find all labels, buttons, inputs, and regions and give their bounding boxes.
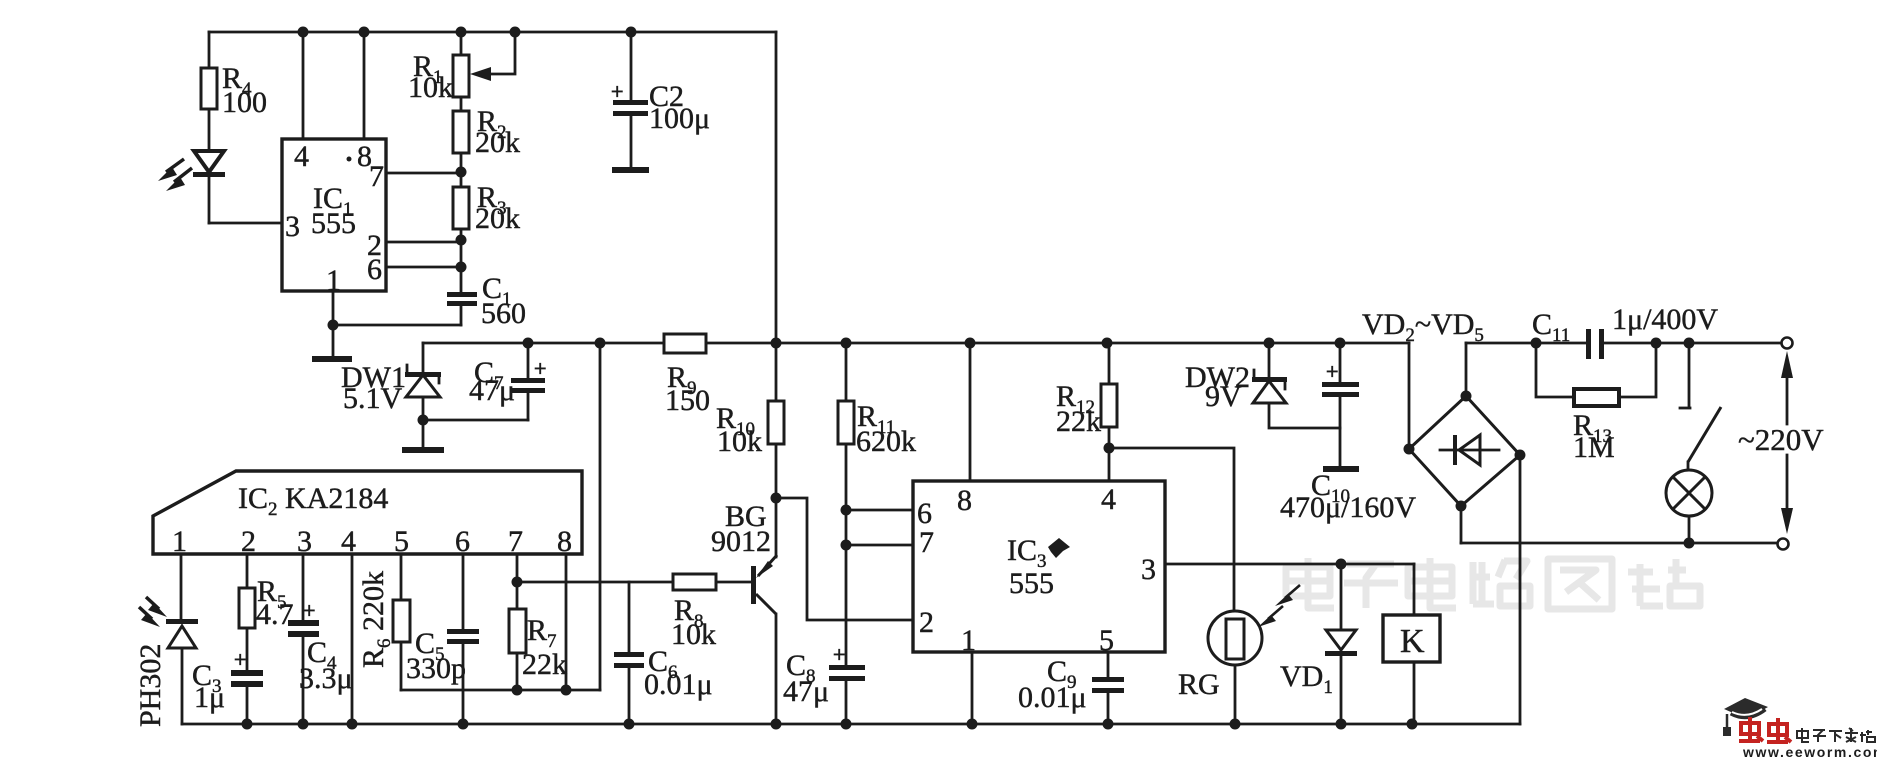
svg-text:www.eeworm.com: www.eeworm.com — [1742, 744, 1877, 757]
lamp symbol — [1666, 470, 1712, 543]
resistor R8 10k — [671, 574, 751, 651]
resistor R9 150 in series — [664, 334, 710, 417]
wire R4 to LED — [208, 109, 211, 151]
svg-text:100: 100 — [222, 86, 267, 119]
svg-text:R6 220k: R6 220k — [357, 571, 395, 668]
svg-text:555: 555 — [1009, 567, 1054, 600]
svg-text:+: + — [234, 647, 246, 672]
wire emitter node to IC3 pin2 — [776, 498, 913, 620]
junction dots on main rail — [418, 338, 1346, 426]
wiper arm of R1 — [470, 32, 515, 81]
capacitor C4 3.3u on pin3 — [288, 554, 353, 724]
wire IC3 pin3 output — [1165, 563, 1414, 566]
svg-text:10k: 10k — [717, 425, 762, 458]
svg-text:+: + — [611, 79, 623, 104]
junction dots on bridge — [1404, 391, 1526, 512]
svg-text:K: K — [1400, 623, 1425, 660]
svg-text:620k: 620k — [856, 425, 916, 458]
wire IC1 pin6 to divider — [386, 266, 461, 269]
capacitor C6 0.01u — [614, 582, 713, 724]
photodiode PH302 on pin1 — [166, 554, 198, 724]
svg-text:VD2~VD5: VD2~VD5 — [1362, 308, 1484, 346]
svg-text:7: 7 — [508, 525, 523, 558]
svg-text:+: + — [534, 356, 546, 381]
svg-text:470μ/160V: 470μ/160V — [1280, 491, 1416, 524]
capacitor C2 100u — [611, 32, 710, 167]
op IC3 555 timer box — [913, 481, 1165, 652]
svg-text:560: 560 — [481, 297, 526, 330]
ground bar under IC1 pin1 — [312, 356, 352, 362]
wire AC top with C11 — [1466, 342, 1782, 345]
svg-text:3: 3 — [297, 525, 312, 558]
svg-text:9012: 9012 — [711, 525, 771, 558]
transistor BG 9012 PNP — [711, 500, 777, 724]
svg-text:7: 7 — [919, 526, 934, 559]
watermark char 路 — [1473, 560, 1530, 606]
svg-text:150: 150 — [665, 384, 710, 417]
IC2 pin number labels — [172, 525, 572, 558]
light arrows into PH302 — [139, 597, 167, 627]
zener diode DW2 9V — [1185, 343, 1340, 428]
svg-text:7: 7 — [369, 160, 384, 193]
emission arrows of LED — [158, 159, 192, 191]
IC1 pin number labels — [285, 140, 384, 297]
svg-text:IC2 KA2184: IC2 KA2184 — [238, 482, 388, 520]
svg-text:2: 2 — [919, 606, 934, 639]
logo url www.eeworm.com — [1742, 744, 1877, 760]
wire IC3 pin8 to rail — [969, 343, 972, 481]
svg-text:0.01μ: 0.01μ — [644, 668, 713, 701]
junction dots IC2 area — [512, 577, 572, 696]
watermark char 电 — [1286, 558, 1334, 608]
svg-text:1: 1 — [961, 624, 976, 657]
wire R12/pin4 node to RG — [1109, 448, 1234, 611]
svg-text:10k: 10k — [408, 71, 453, 104]
wire IC3 pin1 to ground rail — [971, 652, 974, 724]
resistor R5 4.7 on pin2 — [239, 554, 294, 670]
switch to lamp — [1680, 343, 1721, 470]
resistor R2 20k — [453, 105, 520, 159]
~220V double arrow — [1738, 351, 1824, 534]
svg-text:20k: 20k — [475, 202, 520, 235]
svg-text:10k: 10k — [671, 618, 716, 651]
resistor R4 — [201, 62, 267, 119]
op IC1 555 timer box — [282, 139, 386, 291]
wire R4 top stub — [208, 32, 211, 68]
wire IC1 pin8 to rail — [363, 32, 366, 139]
resistor R6 220k on pin5 — [357, 554, 410, 690]
diode VD1 — [1280, 564, 1357, 724]
resistor R11 620k — [838, 343, 916, 665]
wire divider chain R1-R2-R3 — [460, 32, 463, 292]
svg-text:4: 4 — [1101, 483, 1116, 516]
wire base line from IC2 pin7 node to R8 — [517, 581, 673, 584]
svg-text:100μ: 100μ — [649, 102, 710, 135]
junction dots middle section — [771, 443, 1347, 570]
svg-text:22k: 22k — [522, 648, 567, 681]
capacitor C9 0.01u — [1018, 652, 1124, 724]
relay K box — [1383, 564, 1440, 724]
svg-text:47μ: 47μ — [469, 374, 515, 407]
svg-text:8: 8 — [557, 525, 572, 558]
svg-text:RG: RG — [1178, 668, 1220, 701]
watermark text 电子电路图站 (approximated glyphs) — [1286, 558, 1700, 609]
watermark char 图 — [1548, 559, 1612, 609]
ground bar under DW1 — [402, 447, 444, 453]
svg-text:22k: 22k — [1056, 405, 1101, 438]
wire R11/C8 node to IC3 pin6 — [846, 509, 913, 512]
svg-text:20k: 20k — [475, 126, 520, 159]
resistor R10 10k — [716, 343, 784, 557]
bridge inner diode symbol — [1440, 435, 1499, 465]
wire C1 bottom to pin1 node — [333, 324, 461, 327]
wire R6/R7/pin8 bottom bus to rail drop — [401, 689, 600, 692]
capacitor C1 560 — [447, 272, 526, 330]
svg-text:6: 6 — [367, 253, 382, 286]
photoresistor RG — [1178, 611, 1262, 724]
resistor R7 22k on pin7 — [509, 554, 567, 690]
svg-text:1μ: 1μ — [194, 681, 225, 714]
svg-text:3: 3 — [1141, 553, 1156, 586]
svg-text:+: + — [1326, 359, 1338, 384]
svg-text:9V: 9V — [1205, 380, 1242, 413]
junction dots on top rail — [298, 27, 637, 38]
watermark char 电 — [1408, 558, 1456, 608]
wire IC1 pin7 to divider — [386, 172, 461, 175]
IC3 pin number labels — [917, 483, 1156, 657]
svg-text:1μ/400V: 1μ/400V — [1612, 303, 1718, 336]
label VD2~VD5 — [1362, 308, 1484, 346]
resistor R12 22k — [1056, 343, 1117, 481]
LED infrared emitter diode — [193, 151, 225, 223]
svg-text:8: 8 — [957, 484, 972, 517]
svg-text:4.7: 4.7 — [256, 598, 294, 631]
svg-text:+: + — [303, 598, 315, 623]
junction dots on AC wires — [1531, 338, 1695, 549]
zener diode DW1 5.1V — [341, 343, 441, 447]
capacitor C10 470u/160V — [1280, 343, 1416, 524]
svg-text:0.01μ: 0.01μ — [1018, 681, 1087, 714]
logo text 电子下载站 (approximated glyphs) — [1797, 728, 1875, 742]
wire rail drop to KA2184 supply — [599, 343, 602, 690]
wire main rail right part — [706, 342, 1409, 345]
wire IC1 pin1 down — [332, 291, 335, 356]
capacitor C7 47u — [469, 343, 546, 420]
svg-text:1: 1 — [172, 525, 187, 558]
svg-text:4: 4 — [341, 525, 356, 558]
ground bar under C2 — [612, 167, 649, 173]
wire IC1 pin4 to rail — [302, 32, 305, 139]
bridge rectifier VD2~VD5 — [1409, 343, 1520, 724]
svg-text:~220V: ~220V — [1738, 422, 1824, 457]
wire LED to IC1 pin3 — [209, 222, 282, 225]
svg-text:5: 5 — [1099, 624, 1114, 657]
wire DW1 anode to C7 bottom — [423, 419, 528, 422]
potentiometer R1 10k — [408, 50, 469, 104]
svg-text:3.3μ: 3.3μ — [299, 662, 353, 695]
watermark char 子 — [1344, 564, 1398, 608]
svg-text:4: 4 — [294, 140, 309, 173]
wire R11/C8 node to IC3 pin7 — [846, 544, 913, 547]
svg-text:+: + — [833, 642, 845, 667]
junction dots on divider chain — [328, 167, 467, 331]
svg-text:47μ: 47μ — [783, 675, 829, 708]
ground bar under C10 — [1323, 466, 1359, 472]
wire lamp return to bridge bottom — [1461, 542, 1779, 545]
wire IC1 pin2 to divider — [386, 241, 461, 244]
svg-text:3: 3 — [285, 210, 300, 243]
watermark char 站 — [1628, 559, 1700, 606]
wire ground bottom rail — [182, 723, 1520, 726]
light arrows into RG — [1258, 585, 1300, 627]
wire pin4 to ground rail — [351, 554, 354, 724]
wire top supply rail — [209, 31, 776, 34]
AC terminals — [1778, 338, 1793, 550]
wire pin8 down — [565, 554, 568, 690]
svg-text:1M: 1M — [1573, 431, 1615, 464]
capacitor C11 1u/400V — [1532, 303, 1718, 359]
label PH302 vertical — [134, 644, 167, 727]
svg-text:555: 555 — [311, 207, 356, 240]
svg-text:PH302: PH302 — [134, 644, 167, 727]
op IC2 KA2184 box — [153, 471, 582, 554]
ink smudge next to IC3 — [1048, 538, 1070, 558]
capacitor C5 330p on pin6 — [406, 554, 479, 724]
svg-text:330p: 330p — [406, 652, 466, 685]
logo graduation cap icon — [1723, 698, 1768, 736]
logo 虫虫 red characters — [1739, 717, 1791, 742]
svg-text:2: 2 — [241, 525, 256, 558]
wire top rail drop to main rail — [775, 32, 778, 343]
svg-text:5.1V: 5.1V — [343, 382, 403, 415]
capacitor C3 1u — [192, 647, 263, 724]
resistor R13 1M parallel path — [1536, 343, 1656, 464]
capacitor C8 47u — [783, 642, 865, 724]
resistor R3 20k — [453, 181, 520, 235]
wire main rail left part — [423, 342, 664, 345]
junction dots on ground rail — [242, 719, 1418, 730]
